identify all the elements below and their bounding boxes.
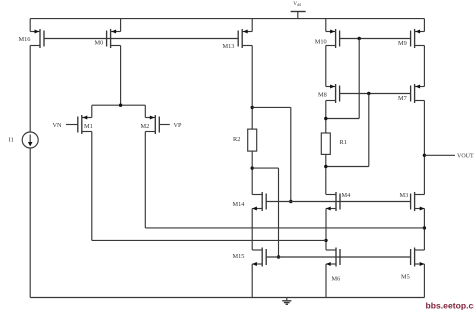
wire branch down to M15 gate line [278,168,280,257]
transistor M13 [223,29,253,50]
wire M7 drain down right spine [423,101,425,195]
wire bias line 2 from M1 drain [92,239,326,241]
wire M15 source to ground rail [251,264,253,298]
node bias1 junction [423,226,426,229]
wire M1 source up to tail [91,105,93,117]
transistor M0 [95,29,121,48]
wire M2 source up to tail [144,105,146,117]
wire VN stub [53,122,78,129]
wire M3 source down to M5 drain [423,209,425,251]
wire M6 source to ground rail [325,264,327,298]
transistor M6 [326,248,340,283]
node bias2 junction [324,239,327,242]
node M10 gate junction [358,37,361,40]
wire M5 source to ground rail [423,264,425,298]
wire M8 drain down to R1 [325,101,327,134]
wire bias line 1 from M2 drain [145,227,424,229]
svg-text:VP: VP [174,122,183,129]
svg-text:I1: I1 [9,136,14,143]
wire M10 gate down to R1 top loop [358,39,360,119]
wire gate line M16-M0-M13 [44,38,238,40]
wire M0 source to rail [120,19,122,32]
wire VP stub [159,122,182,129]
transistor M15 [233,248,267,267]
wire R1 top loop horizontal [326,118,359,120]
wire M8 gate down to R1 bottom loop [368,94,370,167]
wire M9 drain to M7 source [423,46,425,87]
svg-text:bbs.eetop.cn: bbs.eetop.cn [426,301,474,311]
wire I1 to ground rail [29,148,31,298]
wire R1 bottom to M4 drain [325,154,327,194]
transistor M14 [233,192,267,211]
transistor M5 [401,248,424,281]
svg-text:M7: M7 [398,95,407,102]
svg-text:VN: VN [53,122,63,129]
svg-text:M9: M9 [398,40,407,47]
svg-text:M2: M2 [141,123,150,130]
node M8 gate junction [367,92,370,95]
node on gate line [289,200,292,203]
wire M2 drain down [144,132,146,228]
svg-text:M3: M3 [400,192,409,199]
svg-text:dd: dd [297,3,301,7]
wire R2 bottom branch right [252,167,278,169]
svg-text:M4: M4 [342,192,352,199]
wire M4 source down to M6 drain [325,209,327,251]
wire gate line M15-M6-M5 [266,256,410,258]
wire M0 drain to tail node [120,46,122,106]
transistor M3 [400,192,425,211]
node VOUT junction [423,154,426,157]
transistor M8 [318,84,340,103]
transistor M10 [315,29,340,48]
wire M16 source to rail [29,19,31,32]
svg-text:VOUT: VOUT [457,154,474,160]
svg-text:R1: R1 [340,139,347,146]
svg-text:M8: M8 [318,92,327,99]
wire M16 drain down to I1 [29,46,31,133]
transistor M7 [398,84,424,103]
power symbol Vdd [291,1,306,18]
ground [282,298,291,305]
svg-text:M13: M13 [223,43,235,50]
wire M10 source to rail [325,19,327,32]
wire gate line M8-M7 [340,93,411,95]
wire branch down to cascode gate line [290,107,292,201]
node M13 drain junction [251,106,254,109]
svg-text:M6: M6 [332,276,341,283]
wire ground bottom rail [30,297,424,299]
svg-text:R2: R2 [233,136,240,143]
node on M15 gate line [277,255,280,258]
wire gate line M10-M9 [340,38,411,40]
wire M10 drain to M8 source [325,46,327,87]
svg-text:M5: M5 [401,273,410,280]
wire M13 drain down to R2 [251,46,253,130]
svg-text:M10: M10 [315,39,327,46]
wire M13 drain branch right [252,106,291,108]
wire R2 bottom to M14 [251,151,253,194]
svg-text:M16: M16 [19,36,31,43]
wire M13 source to rail [251,19,253,32]
svg-text:M1: M1 [84,123,93,130]
transistor M2 [141,115,160,134]
resistor R1 [321,133,347,154]
node R1 bottom junction [324,165,327,168]
wire M1 drain down [91,132,93,241]
transistor M1 [78,115,93,134]
wire diff pair tail [92,104,146,106]
node tail junction [119,104,122,107]
node R1 top junction [324,117,327,120]
svg-text:M0: M0 [95,40,104,47]
wire VDD top rail [30,18,424,20]
node R2 bottom junction [251,166,254,169]
current source I1 [9,132,39,148]
transistor M9 [398,29,424,48]
svg-text:M15: M15 [233,253,245,260]
resistor R2 [233,129,257,151]
wire M9 source to rail [423,19,425,32]
transistor M4 [326,192,351,211]
wire cascode gate line M14-M4-M3 [266,201,410,203]
wire VOUT stub [424,154,474,160]
transistor M16 [19,29,45,48]
wire R1 bottom loop horizontal [326,166,369,168]
svg-text:M14: M14 [233,201,246,208]
wire M14 source down to M15 [251,209,253,251]
